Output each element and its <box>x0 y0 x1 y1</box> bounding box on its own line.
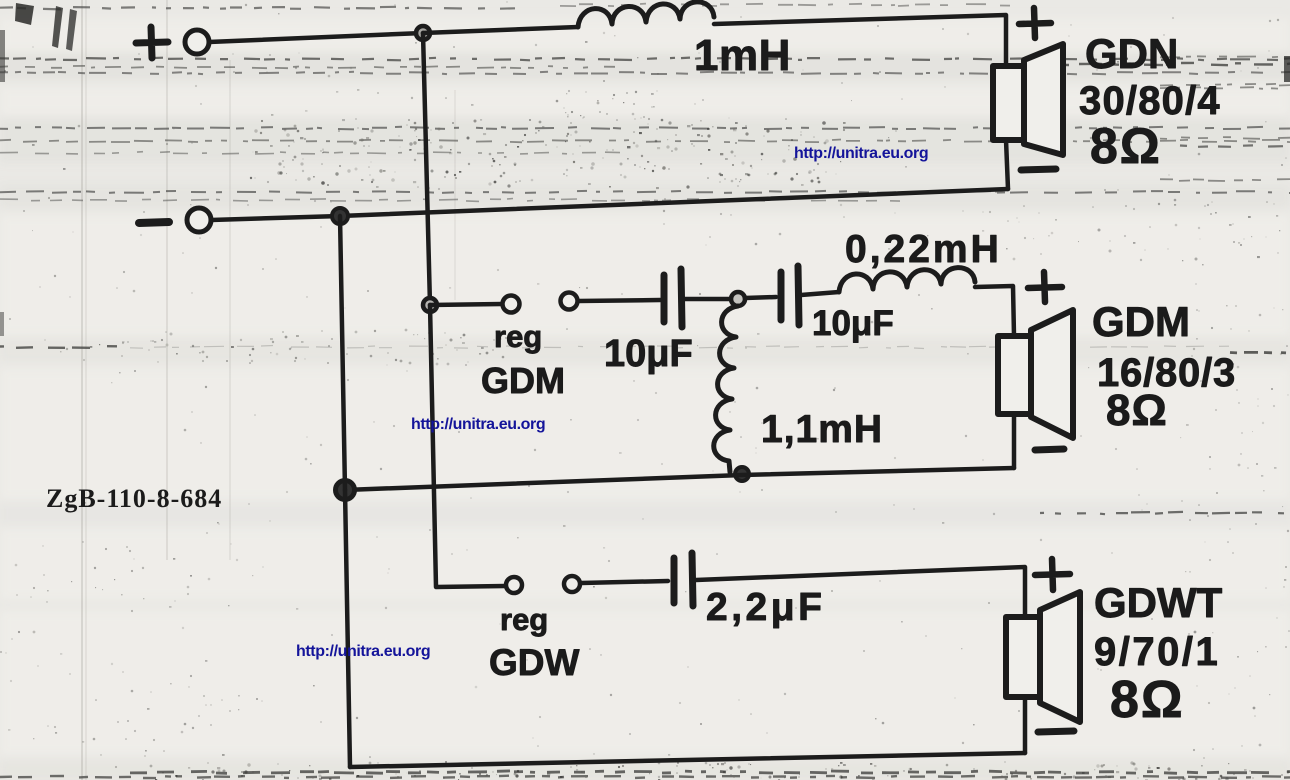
wire C1 to node D <box>684 297 731 302</box>
wire node C to reg GDM switch <box>430 304 502 305</box>
speaker LS3 cone <box>1040 592 1080 722</box>
wire vertical node C down to GDW branch <box>430 305 505 587</box>
wire L1 to speaker LS1 plus <box>714 15 1006 66</box>
svg-text:8Ω: 8Ω <box>1106 386 1168 435</box>
wire L2 to speaker LS2 plus <box>975 286 1014 336</box>
polarity plus of LS2 <box>1028 272 1062 302</box>
node D junction <box>731 292 745 306</box>
switch reg GDW contact 1 <box>506 577 522 593</box>
polarity minus of LS3 <box>1038 731 1074 732</box>
speaker LS2 magnet <box>998 336 1031 414</box>
capacitor C2 10uF <box>781 266 799 325</box>
svg-text:0,22mH: 0,22mH <box>845 228 1002 271</box>
node minus-input terminal <box>139 208 211 232</box>
node C junction <box>423 298 437 312</box>
wire LS2 minus down <box>1012 414 1017 468</box>
svg-text:10μF: 10μF <box>812 304 894 343</box>
polarity plus of LS3 <box>1035 559 1070 590</box>
node B junction on minus rail <box>332 208 348 224</box>
inductor L3 1,1mH vertical <box>714 306 738 472</box>
inductor L1 1mH <box>578 2 714 27</box>
inductor L2 0.22mH <box>839 268 975 292</box>
svg-text:30/80/4: 30/80/4 <box>1079 79 1221 123</box>
wire switch to capacitor C3 <box>581 581 668 583</box>
label reg GDM <box>481 319 565 401</box>
polarity minus of LS2 <box>1035 449 1064 450</box>
capacitor C3 2,2uF <box>674 553 693 606</box>
node A junction <box>416 26 430 40</box>
polarity minus of LS1 <box>1021 169 1056 170</box>
svg-text:GDM: GDM <box>1092 298 1190 345</box>
switch reg GDM contact 2 <box>561 293 578 310</box>
wire vertical node F to bottom rail <box>345 490 350 767</box>
speaker LS3 magnet <box>1006 617 1040 697</box>
svg-text:GDM: GDM <box>481 360 565 401</box>
svg-text:reg: reg <box>500 602 548 637</box>
svg-text:http://unitra.eu.org: http://unitra.eu.org <box>794 145 928 162</box>
label reg GDW <box>489 602 580 683</box>
polarity plus of LS1 <box>1019 8 1051 38</box>
svg-text:GDN: GDN <box>1085 30 1178 77</box>
wire C2 to inductor L2 <box>801 292 839 295</box>
svg-text:1mH: 1mH <box>694 31 791 80</box>
node plus-input terminal <box>136 27 209 58</box>
wire from + terminal to node A <box>209 33 423 42</box>
speaker LS1 magnet <box>993 66 1024 140</box>
svg-text:GDW: GDW <box>489 642 580 683</box>
speaker LS2 cone <box>1031 310 1073 438</box>
svg-text:reg: reg <box>494 319 542 354</box>
svg-text:ZgB-110-8-684: ZgB-110-8-684 <box>46 484 222 513</box>
wire vertical from node A down to node C <box>423 33 430 305</box>
wire switch to capacitor C1 <box>578 300 660 301</box>
wire lower mid rail node F to LS2 minus <box>345 468 1014 490</box>
switch reg GDM contact 1 <box>503 296 520 313</box>
wire bottom rail <box>350 753 1025 767</box>
svg-text:10μF: 10μF <box>604 333 693 375</box>
node E junction bottom of L3 <box>735 467 749 481</box>
node F junction <box>336 481 355 500</box>
wire LS3 minus down <box>1023 697 1028 753</box>
svg-text:http://unitra.eu.org: http://unitra.eu.org <box>296 643 430 660</box>
wire C3 to speaker LS3 plus <box>696 567 1025 617</box>
svg-text:GDWT: GDWT <box>1094 579 1223 626</box>
svg-text:2,2μF: 2,2μF <box>706 586 825 629</box>
svg-text:1,1mH: 1,1mH <box>761 408 883 451</box>
wire node A to inductor L1 <box>423 27 578 33</box>
wire minus rail to LS1 minus <box>211 189 1008 220</box>
wire node D to capacitor C2 <box>745 297 776 298</box>
speaker LS1 cone <box>1024 44 1063 155</box>
svg-text:http://unitra.eu.org: http://unitra.eu.org <box>411 416 545 433</box>
capacitor C1 10uF <box>664 269 682 327</box>
svg-text:8Ω: 8Ω <box>1090 118 1162 174</box>
switch reg GDW contact 2 <box>564 576 580 592</box>
wire vertical node B to node F <box>340 216 345 490</box>
svg-text:9/70/1: 9/70/1 <box>1094 630 1220 674</box>
wire LS1 minus down <box>1006 140 1008 189</box>
svg-text:8Ω: 8Ω <box>1110 671 1185 729</box>
